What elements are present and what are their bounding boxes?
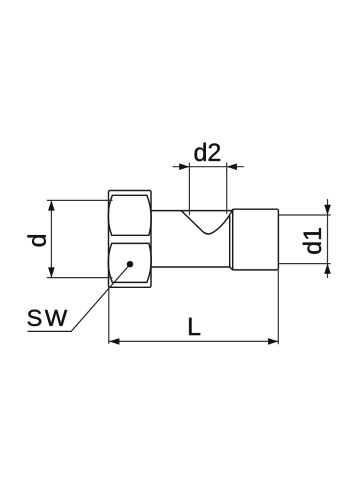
dim d line <box>50 200 52 277</box>
hex chamfer arc lower-left <box>108 243 112 282</box>
part outline <box>108 191 278 288</box>
arrow L right (right-pointing) <box>268 338 278 345</box>
arrow d top (up) <box>48 200 55 210</box>
hex chamfer arc upper-right <box>147 195 151 235</box>
dim L extension right <box>277 271 279 345</box>
cone seat groove <box>181 210 232 234</box>
hex chamfer arc upper-left <box>108 195 112 235</box>
arrow d bottom (down) <box>48 267 55 277</box>
dim d2 extension left <box>188 163 190 216</box>
dim d2 line <box>173 166 244 168</box>
label L <box>189 318 200 335</box>
hex chamfer arc lower-right <box>147 243 151 282</box>
hex face mid band lower line <box>112 242 149 244</box>
cylinder body <box>233 209 279 270</box>
dimension lines <box>47 163 331 345</box>
shoulder line <box>230 217 233 270</box>
hex face top line <box>112 194 147 196</box>
label d1 (rotated) <box>303 228 321 254</box>
hex face bottom line <box>112 281 147 283</box>
dim L extension left <box>108 288 110 344</box>
label d (rotated) <box>27 235 45 246</box>
dim d1 extension bottom <box>279 263 331 265</box>
arrowheads <box>48 163 331 344</box>
dim d1 line <box>327 199 329 278</box>
label SW <box>28 310 68 326</box>
arrow d2 right (left-pointing) <box>227 163 237 170</box>
dim L line <box>109 340 278 342</box>
arrow L left (left-pointing) <box>109 338 119 345</box>
SW leader dot <box>127 261 133 267</box>
shaft top silhouette line <box>151 209 233 210</box>
shaft bottom line <box>151 266 230 268</box>
hex face mid band upper line <box>112 234 149 236</box>
dim d1 extension top <box>279 214 331 216</box>
dim d2 extension right <box>226 163 228 214</box>
hex nut outer rectangle <box>109 191 152 288</box>
arrow d2 left (right-pointing) <box>179 163 189 170</box>
arrow d1 bottom (up-pointing) <box>324 264 331 274</box>
dim d extension top <box>47 199 113 201</box>
label d2 <box>195 143 221 161</box>
SW leader line <box>28 264 131 331</box>
dim d extension bottom <box>47 277 113 279</box>
arrow d1 top (down-pointing) <box>324 205 331 215</box>
